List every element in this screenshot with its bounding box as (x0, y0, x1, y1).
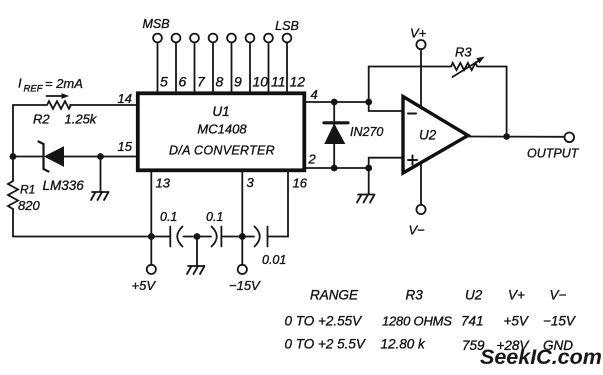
resistor R2 (47, 101, 71, 109)
wire +5V drop (150, 237, 152, 265)
svg-text:MC1408: MC1408 (197, 122, 247, 137)
resistor R1 (8, 181, 18, 209)
wire pin 15 from rail through LM336 to U1 (13, 156, 138, 158)
svg-text:10: 10 (253, 74, 269, 90)
non-inverting input plus sign (408, 156, 417, 165)
diode IN270 (324, 102, 348, 168)
svg-text:U2: U2 (419, 128, 437, 143)
wire op-amp input ground drop (368, 168, 370, 195)
svg-text:1.25k: 1.25k (65, 112, 98, 127)
svg-text:0 TO +2.55V: 0 TO +2.55V (285, 314, 364, 329)
wire feedback left leg (369, 67, 404, 112)
svg-text:SeekIC.com: SeekIC.com (480, 345, 602, 369)
svg-text:13: 13 (156, 176, 171, 191)
svg-text:14: 14 (118, 91, 132, 106)
wire ground node to C2 (197, 236, 211, 238)
wire pin 14 from left rail to U1 (13, 104, 138, 106)
svg-text:12.80 k: 12.80 k (381, 337, 427, 352)
svg-text:R2: R2 (33, 112, 50, 127)
wire LM336 to ground (100, 157, 102, 193)
wire C1 to ground node (184, 236, 198, 238)
wire V- supply (420, 163, 422, 205)
wire C2 to pin3 node (221, 236, 242, 238)
IC U1 MC1408 D/A converter body (138, 93, 304, 170)
svg-text:11: 11 (271, 74, 286, 90)
capacitor C2 0.1 (206, 210, 223, 247)
svg-text:R1: R1 (20, 183, 35, 197)
junction node LM336 cathode (97, 153, 104, 160)
svg-text:0 TO +2 5.5V: 0 TO +2 5.5V (285, 337, 367, 352)
svg-text:3: 3 (247, 175, 255, 190)
zener diode LM336 (39, 142, 64, 172)
input terminal pin 7 (190, 34, 206, 93)
junction node left rail pin15 (10, 153, 17, 160)
input terminal pin 5 (153, 34, 168, 93)
svg-text:0.01: 0.01 (262, 253, 286, 267)
svg-text:U1: U1 (212, 104, 229, 119)
svg-text:V+: V+ (410, 26, 427, 41)
svg-text:2: 2 (308, 152, 317, 167)
wire pin 13 (150, 170, 152, 236)
capacitor C3 0.01 (255, 227, 287, 268)
op-amp U2 (403, 97, 468, 174)
terminal OUTPUT (565, 133, 575, 143)
wire pin 2 of U1 (304, 167, 368, 169)
wire feedback top (369, 67, 507, 137)
svg-text:8: 8 (216, 74, 224, 90)
svg-text:1280 OHMS: 1280 OHMS (382, 314, 452, 329)
terminal +5V (147, 265, 156, 274)
wire V+ supply (420, 49, 422, 107)
svg-text:I: I (18, 76, 22, 91)
current arrow IREF (47, 93, 70, 99)
input terminal pin 10 (246, 34, 269, 93)
label IREF = 2mA (18, 76, 83, 95)
terminal -15V (238, 265, 247, 274)
junction node diode anode (331, 165, 338, 172)
junction node non-inverting input (365, 165, 372, 172)
svg-text:V+: V+ (508, 288, 525, 303)
svg-text:RANGE: RANGE (310, 288, 359, 303)
svg-text:U2: U2 (465, 288, 483, 303)
junction node pin3 (239, 233, 246, 240)
junction node pin13 bypass (148, 233, 155, 240)
svg-text:R3: R3 (455, 45, 472, 60)
junction node output feedback (503, 133, 510, 140)
svg-text:REF: REF (24, 84, 44, 95)
svg-text:+5V: +5V (132, 278, 157, 293)
wire non-inverting input jog (369, 158, 404, 168)
svg-text:D/A CONVERTER: D/A CONVERTER (169, 144, 275, 158)
junction node inverting input (365, 99, 372, 106)
wire pin 4 output of U1 (304, 101, 368, 103)
svg-text:−15V: −15V (229, 278, 261, 293)
svg-text:16: 16 (293, 176, 308, 191)
svg-text:+5V: +5V (504, 314, 530, 329)
junction node diode cathode (331, 99, 338, 106)
svg-text:4: 4 (311, 87, 318, 102)
wire pin3 node to C3 (242, 236, 254, 238)
input terminal pin 11 (264, 34, 285, 93)
svg-text:MSB: MSB (142, 17, 169, 31)
wire bypass ground drop (196, 237, 198, 267)
ground symbol at bypass caps (187, 266, 205, 274)
svg-text:= 2mA: = 2mA (45, 76, 83, 91)
resistor R3 (451, 63, 477, 70)
svg-text:R3: R3 (406, 288, 424, 303)
wire pin 3 (241, 170, 243, 236)
svg-text:V−: V− (550, 288, 567, 303)
ground symbol at LM336 (91, 192, 109, 200)
input terminal pin 8 (209, 34, 224, 93)
svg-text:5: 5 (160, 74, 168, 90)
svg-text:7: 7 (197, 74, 206, 90)
svg-text:820: 820 (18, 198, 40, 213)
terminal V+ (416, 40, 425, 49)
capacitor C1 0.1 (160, 210, 183, 247)
svg-text:LSB: LSB (275, 19, 299, 33)
svg-text:0.1: 0.1 (160, 210, 177, 224)
terminal V- (416, 205, 425, 214)
svg-text:−15V: −15V (543, 314, 577, 329)
svg-text:9: 9 (234, 74, 242, 90)
wire C3 to pin 16 (268, 170, 289, 236)
inverting input minus sign (408, 113, 416, 115)
wire op-amp output (468, 136, 565, 138)
svg-text:6: 6 (179, 74, 187, 90)
svg-text:12: 12 (290, 74, 306, 90)
input terminal pin 9 (227, 34, 242, 93)
svg-text:V−: V− (409, 223, 426, 238)
input terminal pin 12 (283, 34, 306, 93)
R3 wiper arrow (452, 57, 484, 78)
ground symbol at op-amp input (357, 195, 375, 203)
svg-text:0.1: 0.1 (206, 210, 223, 224)
left rail wire (13, 105, 170, 237)
junction node bypass ground (194, 233, 201, 240)
svg-text:15: 15 (118, 139, 133, 154)
input terminal pin 6 (172, 34, 187, 93)
svg-text:OUTPUT: OUTPUT (527, 147, 580, 161)
svg-text:LM336: LM336 (43, 178, 85, 193)
svg-text:IN270: IN270 (350, 125, 383, 139)
wire -15V drop (241, 237, 243, 265)
svg-text:741: 741 (461, 314, 484, 329)
